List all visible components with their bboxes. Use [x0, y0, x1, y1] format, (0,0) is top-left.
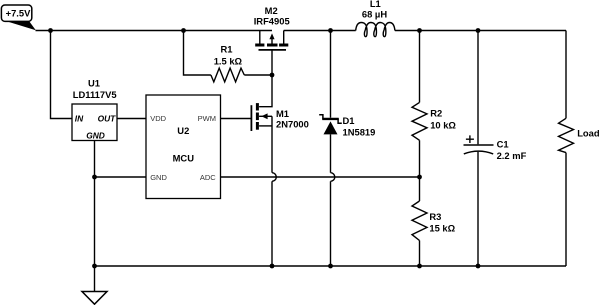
- wire R3 bottom to ground rail: [419, 241, 421, 267]
- wire R1 right lead to M2 gate node: [244, 74, 272, 76]
- wire U2 GND to U1 GND line: [95, 176, 147, 178]
- svg-text:PWM: PWM: [198, 114, 216, 123]
- junction node R3 / ground rail: [417, 264, 422, 269]
- wire D1 anode down to ground rail (hop over ADC): [330, 134, 332, 172]
- resistor Load: [559, 118, 574, 152]
- wire M2 gate down to M1 drain: [259, 50, 272, 106]
- svg-text:GND: GND: [86, 131, 105, 141]
- junction node M1 source / ground rail: [270, 264, 275, 269]
- wire M1 source down to ground rail (hop over ADC): [271, 116, 273, 172]
- svg-text:2N7000: 2N7000: [276, 119, 309, 130]
- junction node D1 / ground rail: [328, 264, 333, 269]
- svg-text:R3: R3: [429, 211, 441, 222]
- junction node rail / C1: [476, 28, 481, 33]
- inductor L1: [356, 23, 395, 37]
- wire U1 OUT to U2 VDD: [117, 118, 146, 120]
- wire R1 branch from rail: [184, 31, 211, 76]
- svg-text:M2: M2: [265, 5, 278, 16]
- junction node switch node: [328, 28, 333, 33]
- svg-text:U1: U1: [88, 77, 100, 88]
- IC U1 LD1117V5: [72, 104, 117, 141]
- junction node U1 GND / U2 GND: [92, 175, 97, 180]
- svg-text:+7.5V: +7.5V: [6, 7, 32, 18]
- junction node C1 / ground rail: [476, 264, 481, 269]
- wire U2 PWM to M1 gate: [221, 118, 252, 120]
- svg-text:IRF4905: IRF4905: [254, 15, 290, 26]
- wire top rail left (+7.5V to M2 source): [36, 30, 273, 32]
- junction node rail / R1 branch: [181, 28, 186, 33]
- svg-text:68 µH: 68 µH: [362, 9, 387, 20]
- svg-text:Load: Load: [577, 128, 600, 139]
- junction node +7.5V rail / U1 branch: [48, 28, 53, 33]
- svg-text:M1: M1: [276, 108, 289, 119]
- svg-text:2.2 mF: 2.2 mF: [497, 150, 527, 161]
- wire top rail mid (M2 drain to L1): [284, 30, 356, 32]
- wire U1 GND down to ground rail: [94, 141, 96, 267]
- wire C1 branch: [477, 31, 479, 145]
- svg-text:VDD: VDD: [150, 114, 166, 123]
- junction node R1 / M2 gate / M1 drain: [270, 73, 275, 78]
- svg-text:ADC: ADC: [200, 173, 216, 182]
- svg-text:U2: U2: [177, 125, 189, 136]
- resistor R3: [419, 177, 421, 201]
- svg-text:IN: IN: [75, 114, 84, 124]
- junction node ground rail left: [92, 264, 97, 269]
- wire top rail right (L1 to Load): [395, 30, 566, 32]
- resistor R1: [211, 68, 244, 82]
- wire C1 bottom to ground rail: [477, 152, 479, 266]
- transistor M2 (P-MOSFET IRF4905): [255, 31, 288, 50]
- svg-text:1.5 kΩ: 1.5 kΩ: [214, 56, 243, 67]
- transistor M1 (N-MOSFET 2N7000): [251, 103, 272, 131]
- wire U2 ADC to feedback node: [221, 176, 420, 178]
- svg-text:1N5819: 1N5819: [343, 127, 376, 138]
- svg-text:R1: R1: [221, 44, 233, 55]
- wire R2 branch: [419, 31, 421, 103]
- wire ground rail: [95, 265, 567, 267]
- junction node rail / R2: [417, 28, 422, 33]
- wire R2 bottom to feedback node: [419, 140, 421, 177]
- wire right rail down to Load: [565, 31, 567, 119]
- power flag +7.5V: [1, 5, 35, 30]
- svg-text:15 kΩ: 15 kΩ: [429, 222, 455, 233]
- svg-text:R2: R2: [430, 108, 442, 119]
- capacitor C1 (polarized): [464, 135, 494, 154]
- svg-text:MCU: MCU: [173, 153, 195, 164]
- svg-text:C1: C1: [497, 139, 509, 150]
- svg-text:GND: GND: [150, 173, 167, 182]
- wire Load bottom to ground rail: [565, 153, 567, 266]
- ground symbol: [82, 266, 107, 304]
- svg-text:OUT: OUT: [98, 114, 117, 124]
- resistor R2: [412, 102, 427, 140]
- diode D1 (Schottky 1N5819): [319, 115, 342, 135]
- IC U2 MCU: [146, 95, 221, 199]
- svg-text:D1: D1: [343, 115, 355, 126]
- svg-text:10 kΩ: 10 kΩ: [430, 119, 456, 130]
- wire left branch to U1 IN: [51, 31, 73, 119]
- wire switch node down to D1: [330, 31, 332, 118]
- svg-text:LD1117V5: LD1117V5: [73, 89, 117, 100]
- junction node feedback (R2/R3/ADC): [417, 175, 422, 180]
